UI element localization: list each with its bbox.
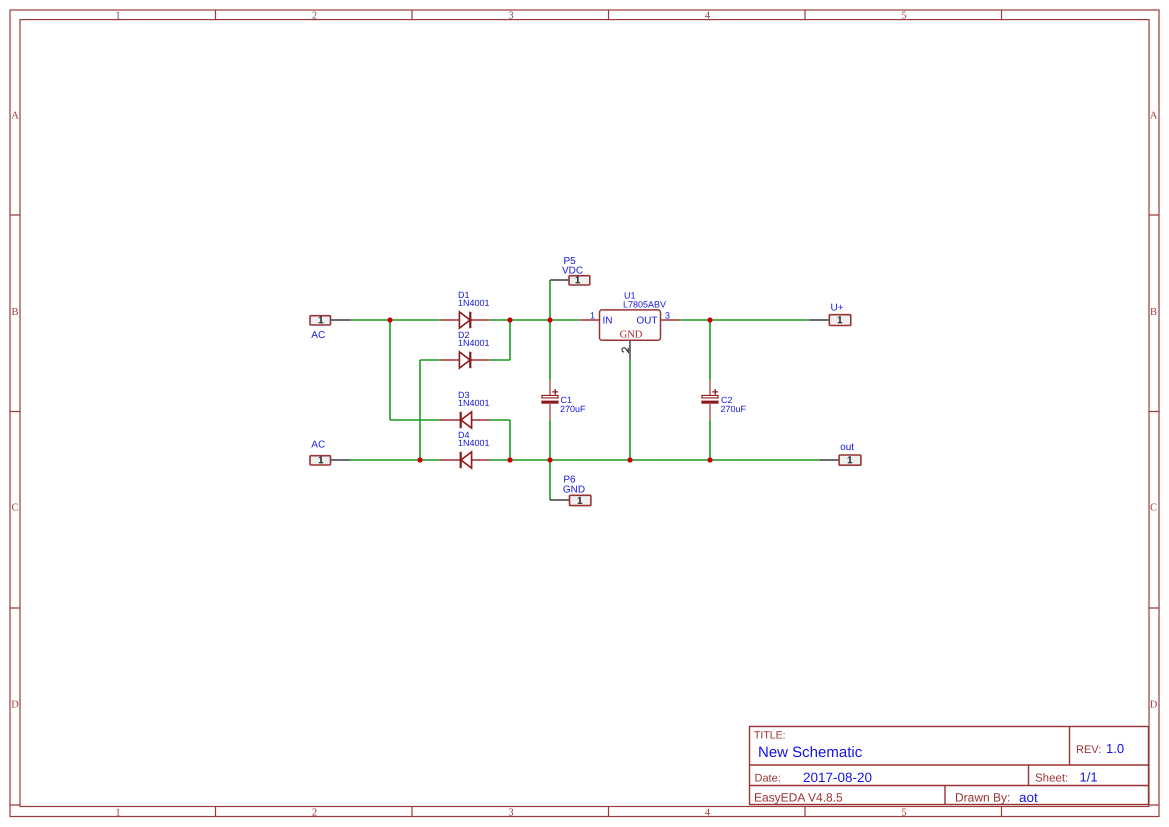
- junction node bottom row x420: [417, 457, 422, 462]
- svg-text:270uF: 270uF: [560, 404, 586, 414]
- svg-text:Date:: Date:: [755, 773, 781, 785]
- wire D3 row right: [490, 419, 511, 421]
- svg-text:A: A: [1150, 111, 1158, 122]
- svg-text:D: D: [11, 700, 19, 711]
- port AC bottom: [310, 440, 350, 466]
- junction node bottom row x510: [507, 457, 512, 462]
- svg-text:U+: U+: [831, 303, 844, 314]
- junction node bottom row x550: [547, 457, 552, 462]
- svg-text:L7805ABV: L7805ABV: [623, 300, 666, 310]
- svg-text:C: C: [11, 503, 18, 514]
- svg-text:New Schematic: New Schematic: [758, 744, 863, 761]
- wire D3 row left: [390, 419, 441, 421]
- wire vertical x630 U1 pin2: [629, 359, 631, 460]
- port AC top: [310, 316, 350, 341]
- wire bottom row D4 to out port: [490, 459, 821, 461]
- junction node top row x510: [507, 317, 512, 322]
- svg-text:Drawn By:: Drawn By:: [955, 791, 1010, 805]
- wire vertical x390: [389, 320, 391, 420]
- svg-text:5: 5: [901, 807, 906, 818]
- diode D2: [441, 330, 490, 368]
- svg-text:A: A: [11, 111, 19, 122]
- wire bottom row AC to D4: [350, 459, 441, 461]
- svg-text:2: 2: [312, 807, 317, 818]
- svg-text:AC: AC: [311, 330, 325, 341]
- svg-text:TITLE:: TITLE:: [754, 730, 786, 742]
- wire vertical x550 P5 to C1: [549, 280, 551, 381]
- wire vertical x710 C2 top: [709, 320, 711, 381]
- junction node top row x390: [387, 317, 392, 322]
- svg-text:1.0: 1.0: [1106, 741, 1124, 756]
- svg-text:2017-08-20: 2017-08-20: [803, 770, 872, 785]
- frame ticks top: [216, 10, 1002, 20]
- svg-text:3: 3: [508, 807, 513, 818]
- svg-text:1: 1: [590, 310, 595, 320]
- svg-text:OUT: OUT: [636, 315, 657, 326]
- regulator U1: [580, 291, 680, 360]
- wire top row U1 pin3 to U+ port: [680, 319, 810, 321]
- title block REV divider: [1069, 727, 1071, 766]
- svg-text:aot: aot: [1019, 790, 1038, 805]
- svg-text:VDC: VDC: [562, 265, 583, 276]
- svg-text:GND: GND: [563, 485, 585, 496]
- diode D1: [441, 290, 490, 328]
- wire top row D1 to U1 pin1: [490, 319, 581, 321]
- frame row labels right: [1150, 111, 1158, 711]
- svg-text:270uF: 270uF: [721, 404, 747, 414]
- wire vertical x510 lower: [509, 420, 511, 460]
- title block row divider 2: [750, 785, 1149, 787]
- svg-text:REV:: REV:: [1076, 744, 1101, 756]
- svg-text:out: out: [840, 442, 854, 453]
- wire D2 row left: [420, 359, 441, 361]
- svg-text:C: C: [1150, 503, 1157, 514]
- capacitor C2: [701, 381, 746, 420]
- svg-text:1: 1: [115, 10, 120, 21]
- svg-text:IN: IN: [603, 315, 613, 326]
- capacitor C1: [541, 381, 586, 420]
- svg-text:1: 1: [115, 807, 120, 818]
- svg-text:5: 5: [901, 10, 906, 21]
- title block outline: [750, 727, 1149, 805]
- wire D2 row right: [490, 359, 511, 361]
- frame ticks bottom: [216, 807, 1002, 817]
- svg-text:1/1: 1/1: [1080, 770, 1098, 785]
- frame column labels bottom: [115, 807, 906, 818]
- svg-text:Sheet:: Sheet:: [1035, 773, 1068, 785]
- svg-text:3: 3: [665, 310, 670, 320]
- frame ticks left: [10, 215, 20, 805]
- junction node top row x710: [707, 317, 712, 322]
- svg-text:4: 4: [705, 10, 711, 21]
- svg-text:1N4001: 1N4001: [458, 338, 490, 348]
- svg-text:1N4001: 1N4001: [458, 438, 490, 448]
- port P5 VDC: [550, 256, 590, 285]
- wire vertical x710 C2 bottom: [709, 420, 711, 461]
- title block Sheet divider: [1028, 765, 1030, 786]
- diode D4: [441, 430, 490, 468]
- diode D3: [441, 390, 490, 428]
- svg-text:D: D: [1150, 700, 1158, 711]
- svg-text:2: 2: [312, 10, 317, 21]
- svg-text:B: B: [1150, 307, 1157, 318]
- port P6 GND: [550, 474, 591, 505]
- title block row divider 1: [750, 764, 1149, 766]
- svg-text:3: 3: [508, 10, 513, 21]
- svg-text:1N4001: 1N4001: [458, 398, 490, 408]
- wire vertical x550 C1 to P6: [549, 420, 551, 501]
- wire top row AC to D1: [350, 319, 441, 321]
- frame column labels top: [115, 10, 906, 21]
- svg-text:AC: AC: [311, 440, 325, 451]
- svg-text:B: B: [11, 307, 18, 318]
- frame row labels left: [11, 111, 19, 711]
- wire vertical x510 upper: [509, 320, 511, 360]
- junction node bottom row x630: [627, 457, 632, 462]
- svg-text:4: 4: [705, 807, 711, 818]
- port out: [820, 442, 861, 465]
- wire vertical x420: [419, 360, 421, 460]
- title block DrawnBy divider: [944, 786, 946, 805]
- svg-text:1N4001: 1N4001: [458, 298, 490, 308]
- port U+: [810, 303, 851, 326]
- svg-text:EasyEDA V4.8.5: EasyEDA V4.8.5: [754, 791, 843, 805]
- junction node top row x550: [547, 317, 552, 322]
- svg-text:GND: GND: [620, 330, 643, 341]
- frame ticks right: [1149, 215, 1159, 805]
- junction node bottom row x710: [707, 457, 712, 462]
